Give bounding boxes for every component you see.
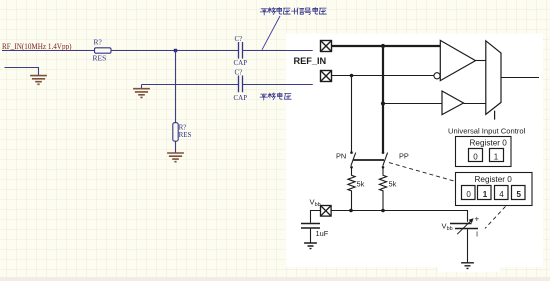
buffer U2: [442, 91, 464, 115]
bit cell 1: [490, 149, 504, 162]
svg-text:RF_IN(10MHz 1.4Vpp): RF_IN(10MHz 1.4Vpp): [2, 41, 72, 51]
wire: below R2: [175, 141, 177, 152]
wire: below 1uF: [310, 229, 312, 243]
wire: mid horizontal run at y=84: [142, 84, 313, 86]
bit cell 4: [495, 186, 509, 200]
svg-text:RES: RES: [179, 131, 192, 139]
wire: Vbb rail: [332, 211, 468, 222]
mux select stub: [494, 111, 496, 120]
svg-text:REF_IN: REF_IN: [294, 56, 327, 66]
inverting input bubble: [434, 73, 440, 79]
bit cell 0: [469, 149, 483, 162]
svg-text:0: 0: [466, 190, 471, 199]
wire: lower input to bubble: [332, 75, 434, 77]
svg-text:Register 0: Register 0: [470, 139, 508, 148]
wire: vertical to switch PN: [351, 76, 353, 152]
register box Register 0 (bottom): [456, 173, 533, 206]
ground (top-left): [30, 76, 47, 85]
wire: mux output: [501, 77, 539, 79]
capacitor 1uF: [301, 224, 329, 239]
svg-text:I: I: [476, 230, 478, 239]
wire: ground stub top-left: [5, 68, 39, 76]
svg-text:Register 0: Register 0: [475, 175, 513, 184]
port Vbb (crossed box): [321, 206, 332, 217]
port REF_IN bottom (crossed box): [321, 71, 332, 82]
ground (mid, x=141.5): [141, 85, 143, 89]
wire: U2 output: [464, 103, 486, 105]
junction node A: [174, 49, 177, 52]
mux U3: [486, 41, 501, 115]
svg-text:4: 4: [499, 190, 504, 199]
svg-text:1uF: 1uF: [316, 229, 329, 238]
bit cell 1: [478, 186, 492, 200]
register box Register 0 (top): [456, 137, 512, 167]
svg-text:Universal Input Control: Universal Input Control: [448, 127, 526, 136]
svg-text:5k: 5k: [357, 180, 365, 189]
ground (below R2): [167, 153, 184, 162]
svg-text:PN: PN: [336, 152, 346, 161]
wire: right of C1: [242, 50, 313, 52]
port REF_IN top (crossed box): [321, 41, 332, 52]
svg-text:5: 5: [517, 190, 522, 199]
svg-text:PP: PP: [399, 152, 409, 161]
bit cell 5: [512, 186, 526, 200]
comparator U1: [440, 40, 475, 80]
wire: to 1uF cap: [311, 211, 321, 223]
resistor R? RES (vertical): [173, 123, 192, 142]
junction: [381, 101, 385, 105]
svg-text:1: 1: [483, 190, 488, 199]
junction: [349, 209, 353, 213]
dashed leader: Register 0 to variable cap: [485, 206, 506, 228]
capacitor C? CAP (top): [234, 35, 248, 67]
variable capacitor Vbb (right): [442, 215, 480, 239]
svg-text:5k: 5k: [389, 180, 397, 189]
figure panel background: [286, 34, 543, 268]
svg-text:CAP: CAP: [234, 94, 248, 102]
label 平移电压+信号电压: [260, 7, 326, 15]
svg-text:CAP: CAP: [234, 59, 248, 67]
wire: to buffer input: [383, 103, 442, 105]
ground (below variable cap): [461, 263, 474, 269]
wire (thick) top input: [332, 45, 440, 47]
junction: [350, 74, 354, 78]
wire: vertical from node A down to R2: [175, 51, 177, 123]
dashed leader: switches to Register 0: [389, 163, 454, 181]
gang bar between switches: [353, 159, 384, 161]
svg-text:1: 1: [494, 152, 499, 161]
svg-text:RES: RES: [93, 54, 107, 63]
svg-text:C?: C?: [235, 68, 243, 76]
resistor R? RES (horizontal): [93, 38, 112, 63]
capacitor C? CAP (bottom): [234, 68, 248, 102]
svg-text:0: 0: [473, 152, 478, 161]
svg-text:+: +: [475, 215, 480, 224]
svg-text:R?: R?: [94, 38, 103, 47]
leader line to annotation: [262, 16, 280, 50]
junction: [381, 209, 385, 213]
label 平移电压 (lower): [260, 93, 291, 100]
resistor 5k (left): [348, 167, 365, 210]
ground (below 1uF): [304, 243, 317, 249]
switch PN: [336, 151, 356, 168]
junction: [381, 44, 385, 48]
wire: RF_IN horizontal run: [2, 50, 238, 52]
bit cell 0: [462, 186, 476, 200]
wire (thick vertical): [382, 46, 384, 152]
wire: U1 output: [476, 60, 486, 62]
resistor 5k (right): [379, 167, 396, 210]
switch PP: [382, 151, 409, 168]
wire: below variable cap: [467, 229, 469, 262]
svg-text:C?: C?: [235, 35, 243, 43]
